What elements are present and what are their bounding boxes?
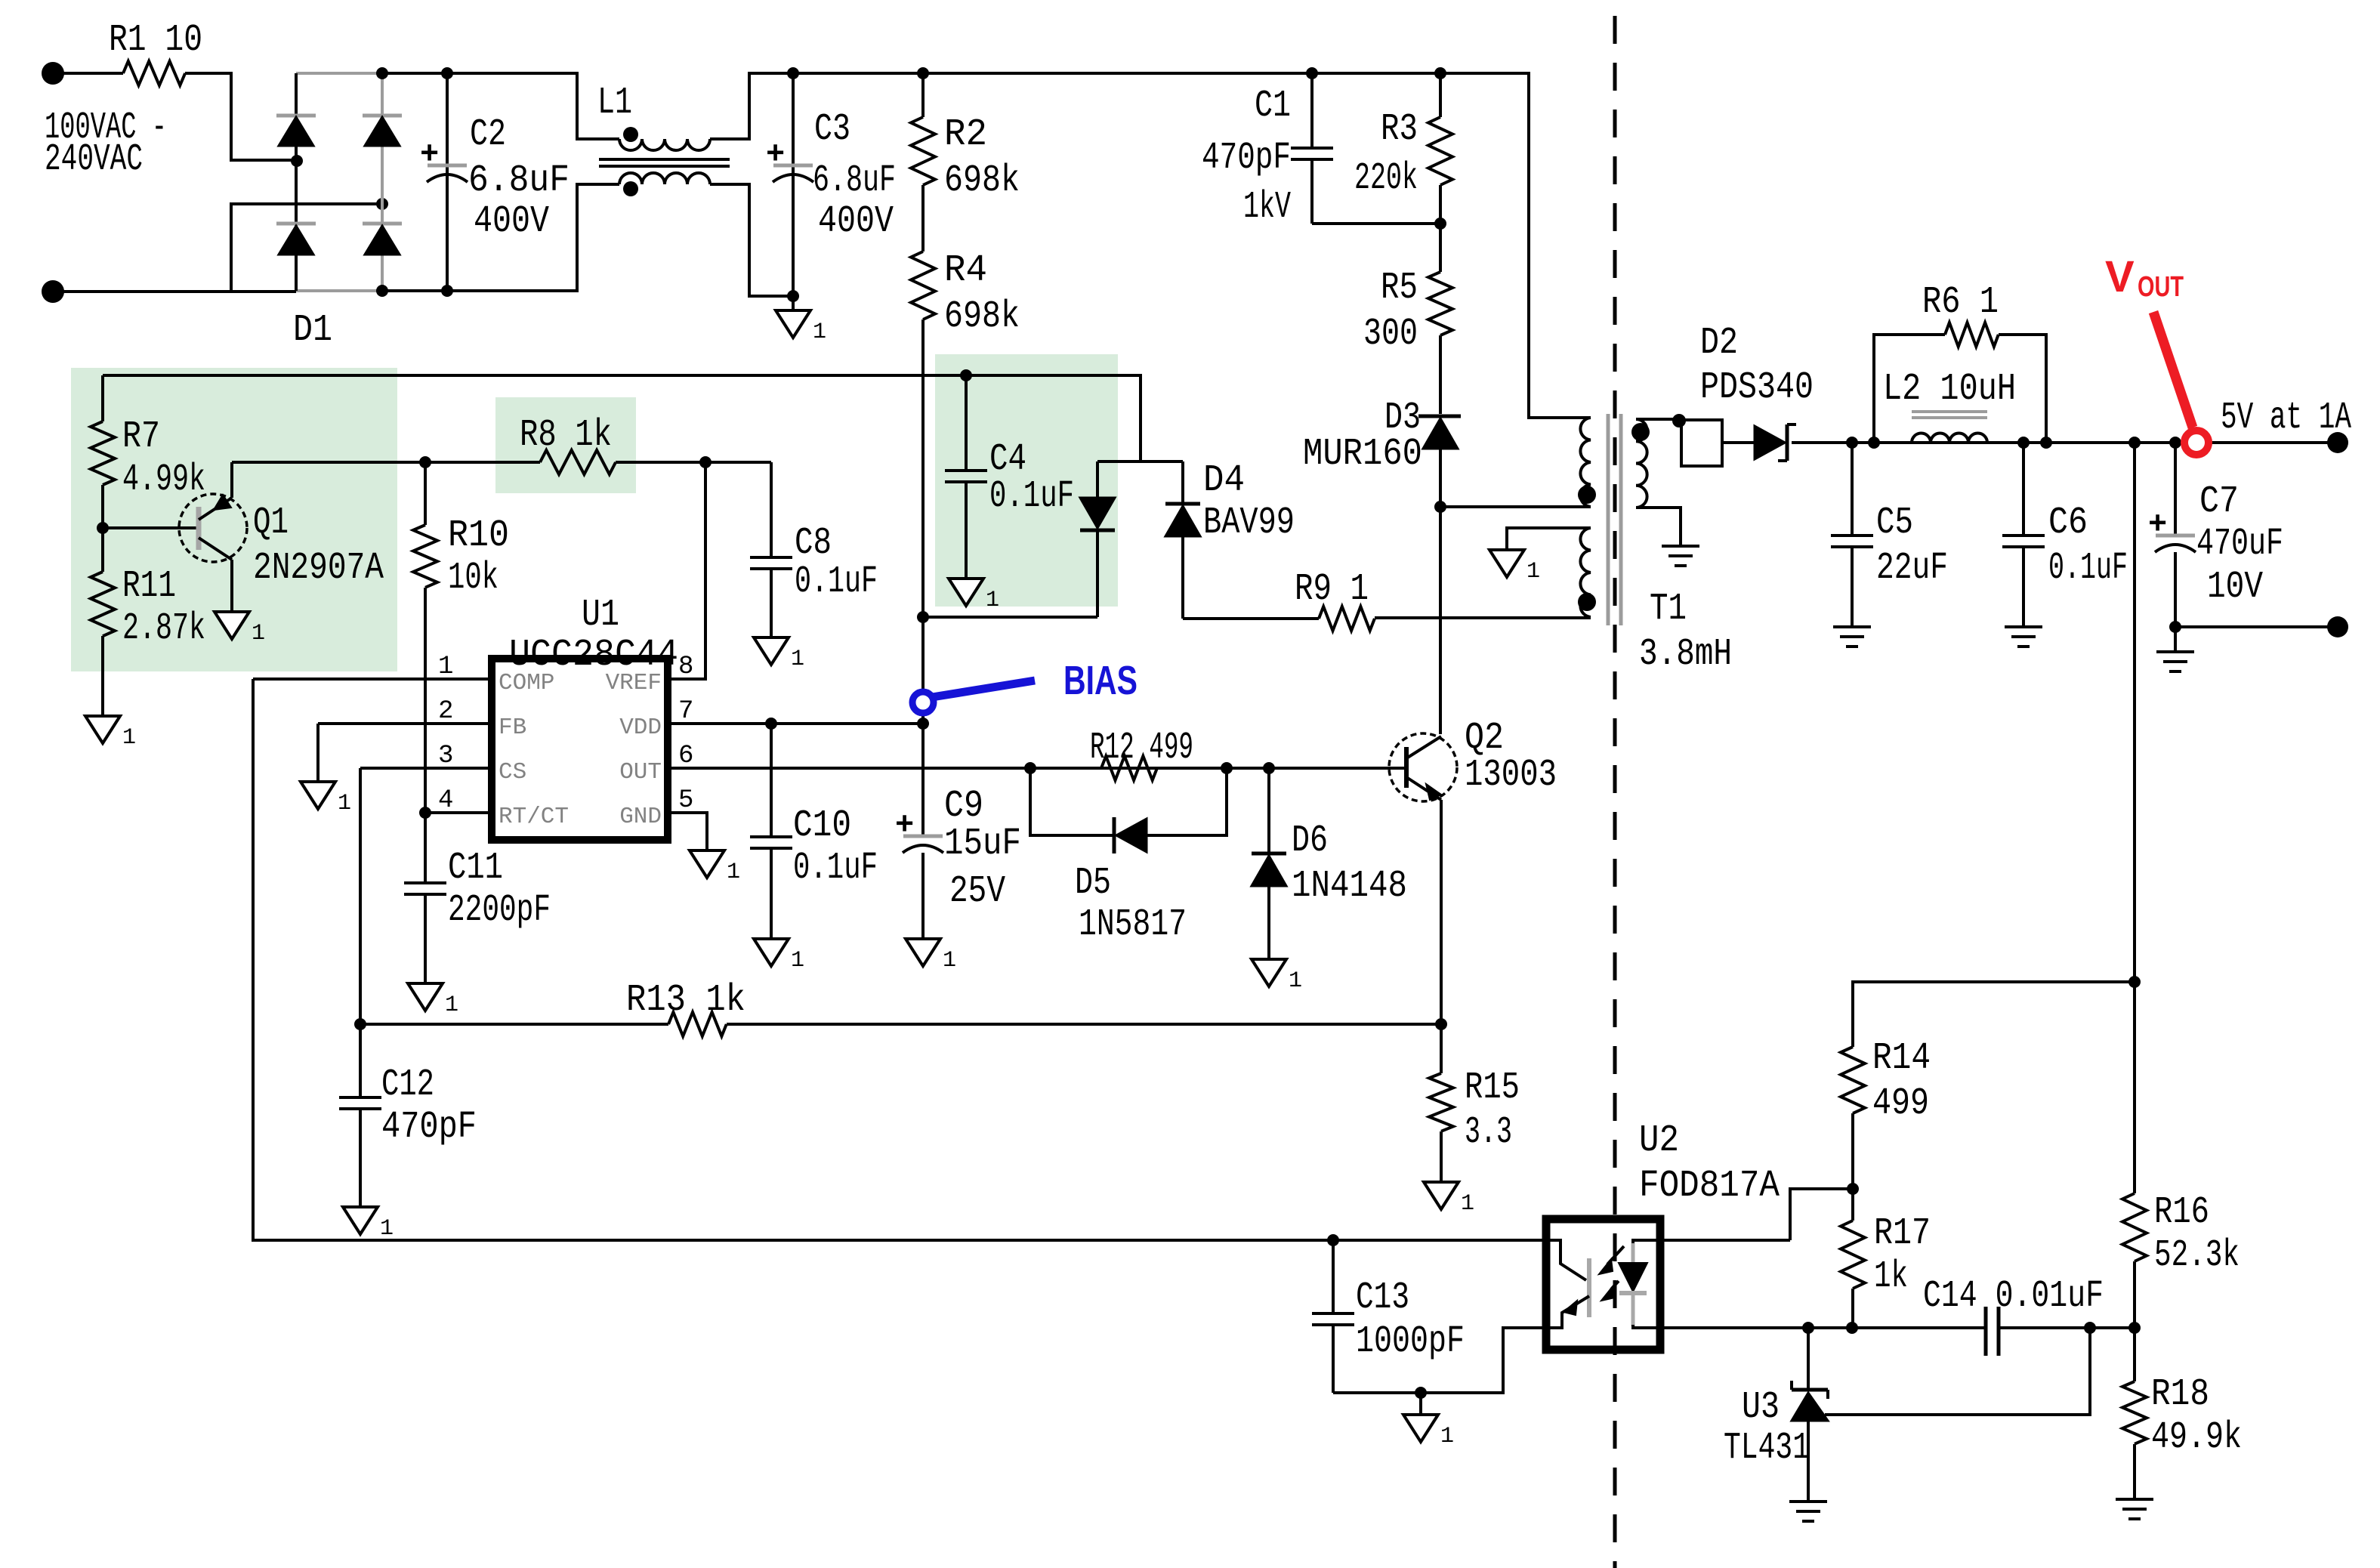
svg-text:R9 1: R9 1 xyxy=(1295,568,1369,611)
wire R4 down to bias node xyxy=(921,319,925,724)
node C2 top xyxy=(441,67,453,79)
svg-text:C10: C10 xyxy=(793,804,851,847)
ground R18 xyxy=(2116,1498,2153,1501)
svg-text:D1: D1 xyxy=(293,309,332,352)
svg-text:R10: R10 xyxy=(448,514,509,557)
resistor R9 xyxy=(1319,607,1375,631)
wire L1 top out xyxy=(710,73,793,139)
svg-text:7: 7 xyxy=(678,697,693,726)
svg-text:1: 1 xyxy=(791,647,804,672)
svg-text:1k: 1k xyxy=(1874,1255,1908,1298)
svg-text:+: + xyxy=(420,137,439,173)
node R10 top xyxy=(419,456,431,468)
node ref riser junction xyxy=(2084,1322,2096,1334)
ground aux winding xyxy=(1489,550,1524,577)
node output terminal positive xyxy=(2327,432,2348,453)
svg-text:49.9k: 49.9k xyxy=(2151,1416,2242,1459)
node bias wire junction xyxy=(917,611,929,623)
svg-text:1: 1 xyxy=(943,948,956,974)
svg-text:RT/CT: RT/CT xyxy=(499,804,569,830)
svg-text:10V: 10V xyxy=(2207,566,2263,609)
capacitor C9 xyxy=(921,724,925,836)
ground Q1 emitter xyxy=(215,612,249,639)
svg-text:VREF: VREF xyxy=(606,670,662,696)
wire opto collector to R14 xyxy=(1790,1189,1853,1240)
wire COMP feedback run xyxy=(253,679,1546,1240)
svg-text:400V: 400V xyxy=(818,200,894,243)
pin 6 OUT xyxy=(668,767,1406,770)
wire opto emitter return xyxy=(1333,1328,1546,1393)
ground C10 xyxy=(754,939,789,966)
svg-text:BIAS: BIAS xyxy=(1063,658,1138,703)
wire bias node to D4 xyxy=(923,616,1097,619)
inductor L1 core xyxy=(599,158,730,161)
svg-text:U2: U2 xyxy=(1639,1119,1679,1162)
svg-text:R13 1k: R13 1k xyxy=(626,979,745,1022)
svg-text:+: + xyxy=(766,137,785,173)
svg-text:L2 10uH: L2 10uH xyxy=(1883,368,2016,411)
node AC2 junction xyxy=(376,198,388,210)
ground D6 xyxy=(1252,959,1286,986)
wire R13 to emitter xyxy=(727,1023,1441,1026)
shunt regulator U3 TL431 xyxy=(1807,1328,1810,1390)
svg-text:1: 1 xyxy=(813,319,826,345)
svg-text:1: 1 xyxy=(1289,968,1302,994)
wire rail C2 to L1 xyxy=(447,73,619,139)
svg-text:2200pF: 2200pF xyxy=(448,889,551,932)
node C10 junction xyxy=(765,718,777,730)
node C5 junction xyxy=(1846,437,1858,449)
svg-text:+: + xyxy=(895,807,914,844)
svg-text:470uF: 470uF xyxy=(2196,523,2283,566)
capacitor C7 xyxy=(2174,443,2177,536)
wire R1 to bridge xyxy=(185,73,296,160)
highlight box C4 xyxy=(935,354,1118,607)
wire C1 bottom to R3 xyxy=(1312,222,1440,225)
svg-text:TL431: TL431 xyxy=(1724,1427,1810,1470)
connector output jumper xyxy=(1681,420,1722,466)
wire Q1 base xyxy=(103,526,199,529)
transformer T1 core xyxy=(1607,414,1610,625)
svg-text:R6 1: R6 1 xyxy=(1922,281,1999,324)
capacitor C10 xyxy=(770,724,773,837)
svg-text:3: 3 xyxy=(438,742,453,770)
node AC input bottom terminal xyxy=(42,280,64,303)
ground C4 xyxy=(949,579,983,606)
svg-text:0.1uF: 0.1uF xyxy=(795,560,878,603)
pin 3 CS xyxy=(360,767,492,770)
node L2 left junction xyxy=(1868,437,1880,449)
svg-text:FOD817A: FOD817A xyxy=(1639,1165,1780,1208)
resistor R3 xyxy=(1439,73,1442,117)
node AC input top terminal xyxy=(42,62,64,85)
capacitor C8 xyxy=(770,462,773,557)
node R2 top xyxy=(917,67,929,79)
transistor Q2 13003 xyxy=(1389,733,1457,801)
node D5 left junction xyxy=(1024,762,1036,774)
wire D5 left leg xyxy=(1030,768,1114,835)
svg-text:D6: D6 xyxy=(1292,819,1328,863)
inductor L2 xyxy=(1912,433,1987,443)
svg-text:C2: C2 xyxy=(470,113,506,156)
wire CS to R13 xyxy=(360,1023,668,1026)
isolation boundary dashed line xyxy=(1613,16,1617,1568)
node secondary top junction xyxy=(1672,414,1686,427)
svg-text:1N5817: 1N5817 xyxy=(1079,903,1187,946)
node collector junction xyxy=(1434,501,1446,513)
svg-text:2: 2 xyxy=(438,697,453,726)
wire bottom rail to C2 xyxy=(382,289,447,292)
node R14 tap junction xyxy=(2128,976,2141,988)
diode D1b top-right xyxy=(363,114,402,118)
svg-text:6: 6 xyxy=(678,742,693,770)
svg-text:GND: GND xyxy=(619,804,662,830)
resistor R5 xyxy=(1439,224,1442,272)
svg-text:C8: C8 xyxy=(795,522,832,565)
wire bottom C2 to L1 xyxy=(447,184,619,291)
node BIAS test point xyxy=(912,692,934,713)
svg-text:1: 1 xyxy=(380,1216,394,1242)
svg-text:499: 499 xyxy=(1872,1082,1929,1125)
node bridge bottom-right xyxy=(376,285,388,297)
wire secondary top xyxy=(1636,418,1679,421)
svg-text:R2: R2 xyxy=(944,113,987,156)
svg-text:L1: L1 xyxy=(597,82,632,125)
wire C14 to divider xyxy=(1999,1326,2135,1329)
svg-text:MUR160: MUR160 xyxy=(1303,433,1422,476)
svg-text:1: 1 xyxy=(1526,559,1540,585)
capacitor C6 xyxy=(2022,443,2025,536)
svg-text:4.99k: 4.99k xyxy=(122,458,205,502)
node C13 junction xyxy=(1327,1234,1339,1246)
ground C5 xyxy=(1833,625,1871,628)
inductor L1 bottom winding xyxy=(619,173,710,184)
svg-text:C13: C13 xyxy=(1356,1276,1409,1320)
transistor Q1 2N2907A xyxy=(179,494,247,562)
svg-text:1: 1 xyxy=(438,653,453,681)
svg-text:6.8uF: 6.8uF xyxy=(813,159,896,202)
svg-text:R4: R4 xyxy=(944,249,987,292)
svg-text:6.8uF: 6.8uF xyxy=(468,159,570,202)
diode D1d bottom-right xyxy=(363,222,402,226)
svg-text:V: V xyxy=(2105,252,2135,301)
diode D3 MUR160 xyxy=(1418,415,1461,418)
ground opto emitter xyxy=(1419,1393,1422,1415)
svg-text:VDD: VDD xyxy=(619,715,662,741)
svg-text:Q1: Q1 xyxy=(253,502,289,545)
wire Q1 collector to R8 rail xyxy=(232,461,425,464)
node RTCT junction xyxy=(419,807,431,819)
resistor R15 xyxy=(1440,1024,1443,1073)
node L2 right junction xyxy=(2040,437,2052,449)
ic U1 UCC28C44 box xyxy=(492,659,668,840)
node C7 junction xyxy=(2169,437,2181,449)
wire R9 to aux winding xyxy=(1375,616,1591,619)
capacitor C14 xyxy=(1984,1307,1988,1356)
inductor L1 top winding xyxy=(619,139,710,150)
svg-text:10k: 10k xyxy=(448,557,499,600)
capacitor C1 xyxy=(1310,73,1313,148)
wire output rail xyxy=(1792,441,2328,444)
transformer T1 secondary xyxy=(1636,419,1647,508)
diode D1c bottom-left xyxy=(276,222,316,226)
node TL431 cathode junction xyxy=(1802,1322,1814,1334)
ground TL431 xyxy=(1789,1500,1827,1503)
diode D4 first half xyxy=(1096,461,1099,498)
wire TL431 ref xyxy=(1825,1328,2090,1415)
wire output return xyxy=(2175,625,2328,628)
resistor R13 xyxy=(668,1012,727,1036)
svg-text:C3: C3 xyxy=(814,108,850,151)
svg-text:R5: R5 xyxy=(1381,267,1418,310)
svg-text:OUT: OUT xyxy=(619,759,662,786)
resistor R2 xyxy=(921,73,925,117)
svg-text:25V: 25V xyxy=(949,870,1005,913)
svg-text:1: 1 xyxy=(445,992,458,1018)
diode D5 1N5817 xyxy=(1116,819,1147,852)
diode D4 second half xyxy=(1181,461,1184,504)
wire Q2 emitter xyxy=(1440,800,1443,1024)
wire secondary bottom xyxy=(1636,508,1681,546)
svg-text:PDS340: PDS340 xyxy=(1700,366,1814,409)
node feedback tap xyxy=(2128,437,2141,449)
svg-text:8: 8 xyxy=(678,653,693,681)
svg-text:52.3k: 52.3k xyxy=(2154,1234,2240,1277)
wire input top xyxy=(53,72,123,75)
node C6 junction xyxy=(2017,437,2030,449)
svg-text:U1: U1 xyxy=(582,594,619,637)
wire bias sense rail xyxy=(103,375,1183,461)
svg-text:U3: U3 xyxy=(1742,1386,1780,1429)
resistor R18 xyxy=(2133,1328,2136,1381)
svg-text:C11: C11 xyxy=(448,847,503,890)
ground C11 xyxy=(408,983,443,1011)
svg-text:15uF: 15uF xyxy=(944,823,1021,866)
svg-text:300: 300 xyxy=(1363,313,1418,356)
capacitor C13 xyxy=(1332,1240,1335,1313)
capacitor C12 xyxy=(359,1024,362,1097)
node VREF riser xyxy=(699,456,712,468)
svg-text:D5: D5 xyxy=(1075,862,1111,905)
wire L1 bottom out xyxy=(710,184,793,296)
ground U1 GND pin xyxy=(690,850,724,878)
svg-text:0.1uF: 0.1uF xyxy=(989,475,1074,518)
node C7 bottom junction xyxy=(2169,621,2181,633)
node emitter junction xyxy=(1435,1018,1447,1030)
svg-text:R3: R3 xyxy=(1381,108,1418,151)
resistor R1 xyxy=(123,61,185,85)
capacitor C11 xyxy=(424,813,427,883)
diode D1a top-left xyxy=(276,114,316,118)
svg-text:R7: R7 xyxy=(122,415,160,458)
resistor R16 xyxy=(2122,1193,2147,1261)
capacitor C2 xyxy=(446,73,449,291)
wire VREF pin8 xyxy=(668,462,705,679)
diode D2 PDS340 xyxy=(1755,426,1785,459)
svg-text:+: + xyxy=(2148,507,2167,543)
wire D4 to R9 xyxy=(1183,617,1319,620)
ground R15 xyxy=(1424,1182,1459,1209)
wire top rail R2 to C1 xyxy=(923,72,1312,75)
svg-text:R11: R11 xyxy=(122,565,176,608)
resistor R14 xyxy=(1841,1047,1865,1113)
highlight box Q1 bias network xyxy=(71,368,397,671)
highlight box R8 xyxy=(495,397,636,493)
svg-text:R17: R17 xyxy=(1874,1212,1931,1255)
svg-text:1kV: 1kV xyxy=(1243,186,1291,229)
svg-text:BAV99: BAV99 xyxy=(1203,502,1295,545)
capacitor C3 xyxy=(792,73,795,296)
svg-text:1: 1 xyxy=(1461,1191,1474,1217)
svg-text:5V at 1A: 5V at 1A xyxy=(2221,397,2351,440)
wire R8 to C8 xyxy=(616,461,771,464)
node R3 top xyxy=(1434,67,1446,79)
svg-text:COMP: COMP xyxy=(499,670,554,696)
svg-text:R12 499: R12 499 xyxy=(1090,727,1193,770)
wire input bottom xyxy=(53,204,378,292)
resistor R11 xyxy=(101,528,104,572)
svg-text:2N2907A: 2N2907A xyxy=(253,547,384,590)
wire primary bottom xyxy=(1440,505,1591,508)
wire R6 loop xyxy=(1874,335,2046,443)
svg-text:220k: 220k xyxy=(1354,157,1418,200)
node emitter return junction xyxy=(1415,1387,1427,1399)
svg-text:3.3: 3.3 xyxy=(1465,1111,1512,1154)
svg-text:1: 1 xyxy=(252,621,265,647)
node C2 bottom xyxy=(441,285,453,297)
wire top rail C3 to R2 xyxy=(793,72,923,75)
svg-text:1: 1 xyxy=(338,791,351,816)
ground C9 xyxy=(906,939,940,966)
svg-text:C5: C5 xyxy=(1876,502,1913,545)
pin 2 FB xyxy=(318,722,492,725)
node VDD bias junction xyxy=(917,718,929,730)
svg-text:D4: D4 xyxy=(1203,459,1245,502)
resistor R12 xyxy=(1101,756,1157,780)
svg-text:D2: D2 xyxy=(1700,322,1738,365)
capacitor C4 xyxy=(965,375,968,471)
svg-text:R14: R14 xyxy=(1872,1037,1931,1080)
diode D6 1N4148 xyxy=(1267,768,1270,853)
node Q1 base junction xyxy=(97,522,109,534)
pin 4 RT/CT xyxy=(425,811,492,814)
svg-text:13003: 13003 xyxy=(1465,754,1557,797)
node D5 right junction xyxy=(1221,762,1233,774)
wire top rail bridge to C2 xyxy=(382,72,447,75)
svg-text:CS: CS xyxy=(499,759,526,786)
wire feedback drop xyxy=(2133,443,2136,982)
resistor R7 xyxy=(101,375,104,421)
svg-text:R16: R16 xyxy=(2154,1191,2209,1234)
pin 5 GND xyxy=(668,813,707,850)
transformer T1 aux winding xyxy=(1580,528,1591,617)
pin 7 VDD xyxy=(668,722,923,725)
ground C7 xyxy=(2174,627,2177,652)
svg-text:400V: 400V xyxy=(474,200,549,243)
svg-text:0.1uF: 0.1uF xyxy=(793,847,878,890)
ground FB pin xyxy=(316,724,319,782)
node bridge top-right xyxy=(376,67,388,79)
node R17 bottom junction xyxy=(1846,1322,1858,1334)
svg-text:5: 5 xyxy=(678,786,693,815)
node CS junction xyxy=(354,1018,366,1030)
wire D5 right leg xyxy=(1147,768,1227,835)
wire D3 to collector node xyxy=(1439,449,1442,734)
ground C8 xyxy=(754,637,789,665)
node C4 top xyxy=(960,369,972,381)
svg-text:240VAC: 240VAC xyxy=(45,138,143,181)
ground C6 xyxy=(2005,625,2042,628)
wire to R8 xyxy=(425,461,540,464)
svg-text:FB: FB xyxy=(499,715,526,741)
svg-text:3.8mH: 3.8mH xyxy=(1639,633,1732,676)
svg-text:1: 1 xyxy=(122,725,136,751)
svg-text:470pF: 470pF xyxy=(1202,137,1291,180)
node output terminal negative xyxy=(2327,616,2348,637)
wire opto anode xyxy=(1660,1239,1790,1242)
svg-text:T1: T1 xyxy=(1650,588,1687,631)
svg-text:1: 1 xyxy=(1440,1424,1454,1449)
pin 1 COMP xyxy=(253,678,492,681)
svg-text:698k: 698k xyxy=(944,295,1020,338)
svg-text:R18: R18 xyxy=(2151,1373,2209,1416)
optocoupler LED xyxy=(1633,1240,1660,1243)
svg-text:470pF: 470pF xyxy=(381,1106,477,1149)
svg-text:OUT: OUT xyxy=(2138,271,2184,303)
node C3 bottom xyxy=(787,290,799,302)
svg-text:1000pF: 1000pF xyxy=(1356,1320,1465,1363)
resistor R4 xyxy=(911,252,935,319)
svg-text:22uF: 22uF xyxy=(1876,547,1948,590)
svg-text:1N4148: 1N4148 xyxy=(1292,865,1407,908)
wire jumper to D2 xyxy=(1722,441,1758,444)
svg-text:1: 1 xyxy=(791,948,804,974)
ground C12 xyxy=(343,1207,378,1234)
node R3 R5 junction xyxy=(1434,218,1446,230)
transformer T1 primary xyxy=(1580,418,1591,507)
svg-text:R1 10: R1 10 xyxy=(109,19,202,62)
resistor R8 xyxy=(540,450,616,474)
svg-text:R8 1k: R8 1k xyxy=(520,414,612,457)
resistor R17 xyxy=(1851,1189,1854,1221)
wire top rail C1 to R3 xyxy=(1312,72,1440,75)
optocoupler light arrows xyxy=(1607,1246,1624,1264)
wire top rail to primary xyxy=(1440,73,1591,418)
node AC1 junction xyxy=(291,155,303,167)
svg-text:1: 1 xyxy=(727,860,740,885)
node R14 R17 junction xyxy=(1847,1183,1859,1195)
svg-text:C9: C9 xyxy=(944,785,983,828)
wire R2 to R4 xyxy=(921,185,925,252)
wire cathode bus xyxy=(1808,1326,1986,1329)
capacitor C5 xyxy=(1851,443,1854,536)
node R16 R18 junction xyxy=(2128,1322,2141,1334)
svg-text:2.87k: 2.87k xyxy=(122,607,205,650)
svg-text:C6: C6 xyxy=(2048,502,2088,545)
resistor R6 xyxy=(1945,323,1999,347)
svg-text:C14 0.01uF: C14 0.01uF xyxy=(1923,1275,2104,1318)
wire aux top to ground xyxy=(1507,528,1591,550)
ground R11 xyxy=(85,716,120,743)
wire fb drop to R16 xyxy=(2133,982,2136,1193)
svg-text:0.1uF: 0.1uF xyxy=(2048,547,2128,590)
node D6 junction xyxy=(1263,762,1275,774)
ground secondary xyxy=(1662,545,1699,548)
ground C3 xyxy=(792,296,795,310)
svg-text:4: 4 xyxy=(438,786,453,815)
svg-text:C7: C7 xyxy=(2199,480,2239,523)
optocoupler phototransistor xyxy=(1546,1240,1586,1280)
